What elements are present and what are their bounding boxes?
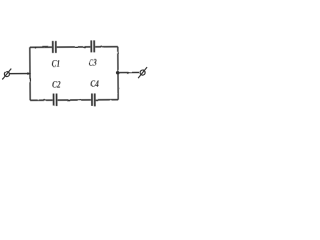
- terminal left slash: [2, 69, 11, 80]
- wire top-left segment: [30, 46, 52, 48]
- terminal right circle: [140, 70, 145, 75]
- wire left stub: [9, 73, 30, 75]
- capacitor C2: [54, 94, 57, 107]
- terminal left circle: [4, 72, 9, 77]
- wire bottom-left segment: [30, 99, 52, 101]
- svg-text:C2: C2: [52, 78, 61, 89]
- wire top-middle segment: [57, 46, 90, 48]
- node left junction: [27, 72, 31, 75]
- wire bottom-right segment: [96, 99, 118, 101]
- terminal right slash: [138, 67, 147, 78]
- capacitor C4: [92, 93, 95, 105]
- node right junction: [116, 71, 120, 75]
- wire right edge: [117, 47, 119, 100]
- svg-text:C3: C3: [89, 58, 97, 68]
- capacitor C3: [91, 40, 94, 52]
- svg-text:C1: C1: [51, 57, 60, 68]
- wire bottom-middle segment: [58, 99, 91, 101]
- capacitor C1: [53, 41, 56, 53]
- wire left edge: [29, 47, 31, 100]
- wire right stub: [118, 71, 139, 73]
- svg-text:C4: C4: [90, 78, 99, 89]
- wire top-right segment: [95, 46, 118, 48]
